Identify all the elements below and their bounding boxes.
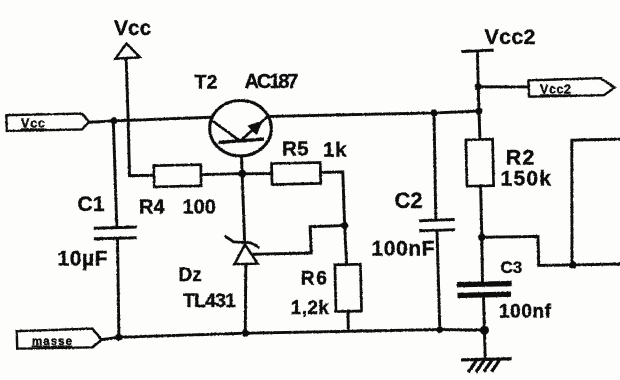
svg-text:C3: C3 <box>501 258 523 277</box>
transistor Q T2 circle <box>210 101 272 156</box>
resistor R6 box <box>335 264 362 311</box>
capacitor C2 plates <box>419 220 455 221</box>
resistor R4 box <box>154 165 201 187</box>
wire R5 right lead <box>321 172 345 226</box>
wire Vcc flag to node <box>89 117 210 122</box>
net flag Vcc2 <box>529 78 615 96</box>
power symbol Vcc triangle <box>116 44 141 59</box>
svg-text:1k: 1k <box>323 139 347 162</box>
capacitor C3 plates <box>457 284 512 285</box>
svg-text:150k: 150k <box>501 167 552 190</box>
svg-text:AC187: AC187 <box>245 71 299 93</box>
wire R6 bottom lead <box>346 312 350 331</box>
capacitor C1 plates <box>94 227 137 228</box>
wire Dz anode lead <box>244 264 247 333</box>
svg-text:Vcc2: Vcc2 <box>485 25 536 49</box>
right box bottom edge <box>573 263 620 267</box>
wire Vcc2 stem <box>477 51 480 139</box>
svg-text:C1: C1 <box>78 193 105 216</box>
transistor T2 emitter arrow <box>247 120 263 135</box>
svg-text:T2: T2 <box>195 72 218 94</box>
wire C1 bottom lead <box>118 239 119 337</box>
wire emitter to Vcc2 rail <box>271 111 478 116</box>
svg-text:R2: R2 <box>506 146 535 170</box>
svg-text:Dz: Dz <box>179 265 202 286</box>
svg-text:TL431: TL431 <box>183 290 236 312</box>
wire R2 bottom lead <box>481 186 482 238</box>
wire transistor base lead <box>242 156 245 242</box>
wire C3 top lead <box>480 237 484 282</box>
transistor T2 collector diagonal <box>210 119 240 141</box>
svg-text:100nF: 100nF <box>372 238 435 261</box>
svg-text:masse: masse <box>32 336 72 348</box>
svg-text:R6: R6 <box>301 269 327 290</box>
transistor T2 base bar <box>219 139 264 143</box>
svg-text:Vcc: Vcc <box>21 117 45 131</box>
power bar Vcc2 <box>463 50 492 51</box>
wire R4 to base node <box>201 174 242 175</box>
wire node to right box <box>482 236 573 265</box>
wire Vcc stem down to R4 <box>126 60 154 176</box>
svg-text:C2: C2 <box>395 188 423 213</box>
resistor R2 box <box>466 139 494 186</box>
resistor R5 box <box>272 162 321 184</box>
wire ground lead <box>483 330 487 359</box>
diode Dz triangle <box>235 245 258 265</box>
right box outline <box>572 139 620 265</box>
wire C3 bottom lead <box>482 297 486 330</box>
wire base node to R5 <box>242 172 272 175</box>
svg-text:10µF: 10µF <box>58 248 108 271</box>
svg-text:Vcc2: Vcc2 <box>540 83 571 97</box>
wire C1 top lead <box>113 121 117 227</box>
ground symbol <box>461 359 512 373</box>
wire R6 top lead <box>345 226 347 264</box>
transistor T2 emitter diagonal <box>241 116 269 141</box>
wire TL431 ref jog <box>253 226 345 255</box>
net flag Vcc <box>6 114 89 131</box>
svg-text:100nf: 100nf <box>499 302 552 323</box>
svg-text:1,2k: 1,2k <box>291 298 329 319</box>
wire to Vcc2 flag <box>478 85 528 88</box>
svg-text:Vcc: Vcc <box>114 17 152 40</box>
diode Dz zener bar <box>225 236 260 248</box>
wire C2 top lead <box>434 113 436 219</box>
svg-text:100: 100 <box>183 197 216 219</box>
svg-text:R5: R5 <box>282 138 309 161</box>
wire C2 bottom lead <box>437 232 440 330</box>
net flag masse <box>17 329 102 349</box>
svg-text:R4: R4 <box>139 197 165 219</box>
bottom rail masse wire <box>102 330 485 340</box>
